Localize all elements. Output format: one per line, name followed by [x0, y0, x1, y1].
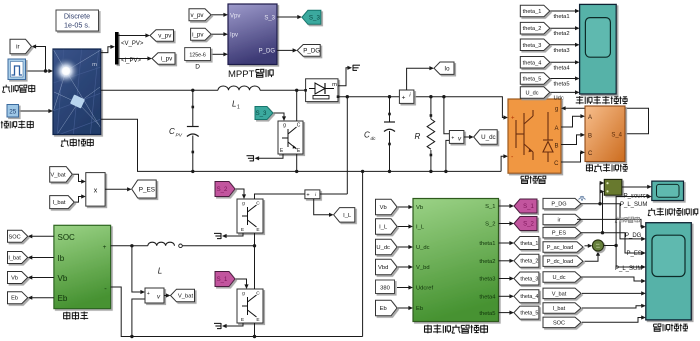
svg-text:g: g [242, 202, 245, 207]
svg-text:S_3: S_3 [255, 110, 267, 117]
svg-text:theta4: theta4 [554, 65, 571, 71]
svg-text:U_dc: U_dc [552, 275, 565, 281]
svg-text:theta_4: theta_4 [523, 60, 542, 66]
svg-text:SOC: SOC [58, 233, 76, 242]
svg-text:P_DG: P_DG [551, 202, 566, 208]
svg-text:ir: ir [557, 217, 560, 223]
svg-text:Vb: Vb [11, 276, 18, 282]
svg-text:L: L [158, 267, 162, 276]
svg-text:P_dc_load: P_dc_load [547, 259, 573, 265]
svg-text:E: E [241, 317, 244, 323]
svg-text:Eb: Eb [416, 306, 423, 312]
svg-text:25: 25 [9, 109, 17, 116]
svg-text:Eb: Eb [380, 306, 387, 312]
svg-text:<V_PV>: <V_PV> [121, 41, 144, 47]
svg-text:B: B [554, 144, 558, 150]
svg-text:P_L_SUM: P_L_SUM [620, 202, 647, 208]
svg-text:SOC: SOC [9, 234, 21, 240]
svg-text:S_1: S_1 [485, 204, 495, 210]
svg-text:U_dc: U_dc [481, 134, 495, 141]
svg-text:P_L_SUM: P_L_SUM [615, 266, 642, 272]
svg-text:U_dc: U_dc [416, 245, 430, 251]
svg-text:g: g [555, 107, 558, 113]
svg-text:Vb: Vb [380, 205, 387, 211]
svg-text:theta5: theta5 [554, 82, 570, 88]
svg-text:+: + [147, 291, 150, 297]
svg-text:PV: PV [176, 133, 183, 139]
svg-text:theta5: theta5 [479, 311, 495, 317]
svg-text:Io: Io [444, 65, 450, 72]
svg-text:theta_1: theta_1 [523, 9, 542, 15]
svg-text:v_pv: v_pv [158, 33, 172, 40]
svg-text:I_bat: I_bat [553, 306, 566, 312]
svg-text:E: E [256, 317, 259, 323]
svg-text:Vbd: Vbd [378, 265, 388, 271]
svg-text:125e-6: 125e-6 [189, 52, 206, 58]
svg-text:E: E [256, 227, 259, 233]
svg-text:A: A [554, 126, 558, 132]
svg-text:Ib: Ib [58, 254, 65, 263]
svg-text:S_3: S_3 [309, 15, 321, 22]
svg-text:dc: dc [371, 136, 377, 142]
svg-text:1e-05 s.: 1e-05 s. [64, 21, 90, 30]
svg-text:S_2: S_2 [485, 222, 495, 228]
svg-text:theta_4: theta_4 [520, 294, 538, 300]
svg-text:i_pv: i_pv [161, 56, 173, 63]
svg-text:P_ES: P_ES [552, 231, 567, 237]
svg-text:I_bat: I_bat [53, 200, 66, 206]
svg-text:MPPT: MPPT [228, 69, 255, 80]
svg-text:V_bd: V_bd [416, 265, 430, 271]
svg-text:P_ES: P_ES [627, 251, 642, 257]
svg-text:Udc: Udc [554, 95, 564, 101]
svg-text:S_3: S_3 [264, 16, 275, 22]
svg-text:+: + [451, 135, 454, 141]
svg-text:I_L: I_L [343, 213, 352, 219]
svg-text:theta_2: theta_2 [520, 259, 538, 265]
svg-text:+: + [511, 116, 515, 122]
svg-text:theta2: theta2 [554, 31, 570, 37]
svg-text:P_DG: P_DG [303, 48, 320, 55]
svg-text:A: A [588, 115, 592, 121]
svg-text:P_ac_load: P_ac_load [547, 245, 573, 251]
svg-text:theta_1: theta_1 [520, 241, 538, 247]
svg-text:g: g [242, 292, 245, 297]
svg-text:V_bat: V_bat [178, 294, 194, 300]
svg-text:C: C [256, 291, 260, 297]
svg-text:ir: ir [16, 44, 19, 51]
svg-text:Udcref: Udcref [416, 286, 433, 292]
svg-text:D: D [195, 64, 200, 71]
svg-text:theta3: theta3 [479, 277, 495, 283]
svg-text:B: B [588, 134, 592, 140]
svg-text:P_DG: P_DG [625, 233, 642, 239]
svg-text:m: m [92, 62, 97, 68]
svg-text:E: E [241, 227, 244, 233]
svg-text:theta3: theta3 [554, 48, 570, 54]
svg-text:C: C [256, 201, 260, 207]
svg-text:S_2: S_2 [217, 187, 228, 193]
svg-text:C: C [364, 131, 370, 140]
svg-text:Vpv: Vpv [230, 13, 240, 19]
svg-text:I_bat: I_bat [8, 256, 21, 262]
svg-text:C: C [588, 151, 593, 157]
svg-text:C: C [554, 161, 559, 167]
svg-text:theta_5: theta_5 [523, 77, 542, 83]
svg-text:v_pv: v_pv [190, 12, 204, 19]
svg-text:L: L [232, 100, 236, 109]
svg-text:380: 380 [380, 285, 390, 291]
svg-text:+: + [103, 244, 107, 251]
svg-text:1: 1 [237, 105, 240, 111]
svg-text:SOC: SOC [553, 320, 565, 326]
svg-text:P_DG: P_DG [259, 49, 276, 55]
svg-text:P_ES: P_ES [139, 186, 155, 193]
svg-text:theta_3: theta_3 [523, 43, 542, 49]
svg-text:Vb: Vb [416, 205, 423, 211]
svg-text:S_1: S_1 [217, 277, 228, 283]
svg-text:S_4: S_4 [611, 132, 622, 138]
svg-text:+: + [306, 193, 309, 199]
svg-text:Vb: Vb [58, 274, 68, 283]
svg-text:Ipv: Ipv [230, 33, 238, 39]
svg-text:C: C [297, 123, 301, 129]
svg-text:theta1: theta1 [554, 14, 570, 20]
svg-text:V_bat: V_bat [552, 291, 567, 297]
svg-text:theta_2: theta_2 [523, 26, 542, 32]
svg-text:x: x [94, 187, 98, 194]
svg-text:+: + [402, 95, 406, 102]
svg-text:theta1: theta1 [479, 241, 495, 247]
svg-text:theta_3: theta_3 [520, 276, 538, 282]
svg-text:<I_PV>: <I_PV> [121, 58, 142, 64]
svg-text:C: C [169, 127, 175, 136]
svg-text:Eb: Eb [11, 296, 18, 302]
svg-text:i_pv: i_pv [192, 31, 204, 38]
svg-text:S_1: S_1 [523, 204, 534, 210]
svg-text:I_L: I_L [379, 225, 388, 231]
svg-text:U_dc: U_dc [525, 90, 538, 96]
svg-text:Eb: Eb [58, 294, 68, 303]
svg-text:Discrete: Discrete [64, 12, 90, 21]
svg-text:theta2: theta2 [479, 259, 495, 265]
svg-text:R: R [415, 132, 421, 141]
svg-text:I_L: I_L [416, 225, 425, 231]
svg-text:S_2: S_2 [523, 222, 534, 228]
svg-text:theta4: theta4 [479, 295, 496, 301]
svg-text:V_bat: V_bat [50, 172, 66, 178]
svg-text:theta_5: theta_5 [520, 311, 538, 317]
svg-text:g: g [283, 123, 286, 129]
svg-text:m: m [332, 82, 337, 88]
svg-text:U_dc: U_dc [376, 245, 390, 251]
